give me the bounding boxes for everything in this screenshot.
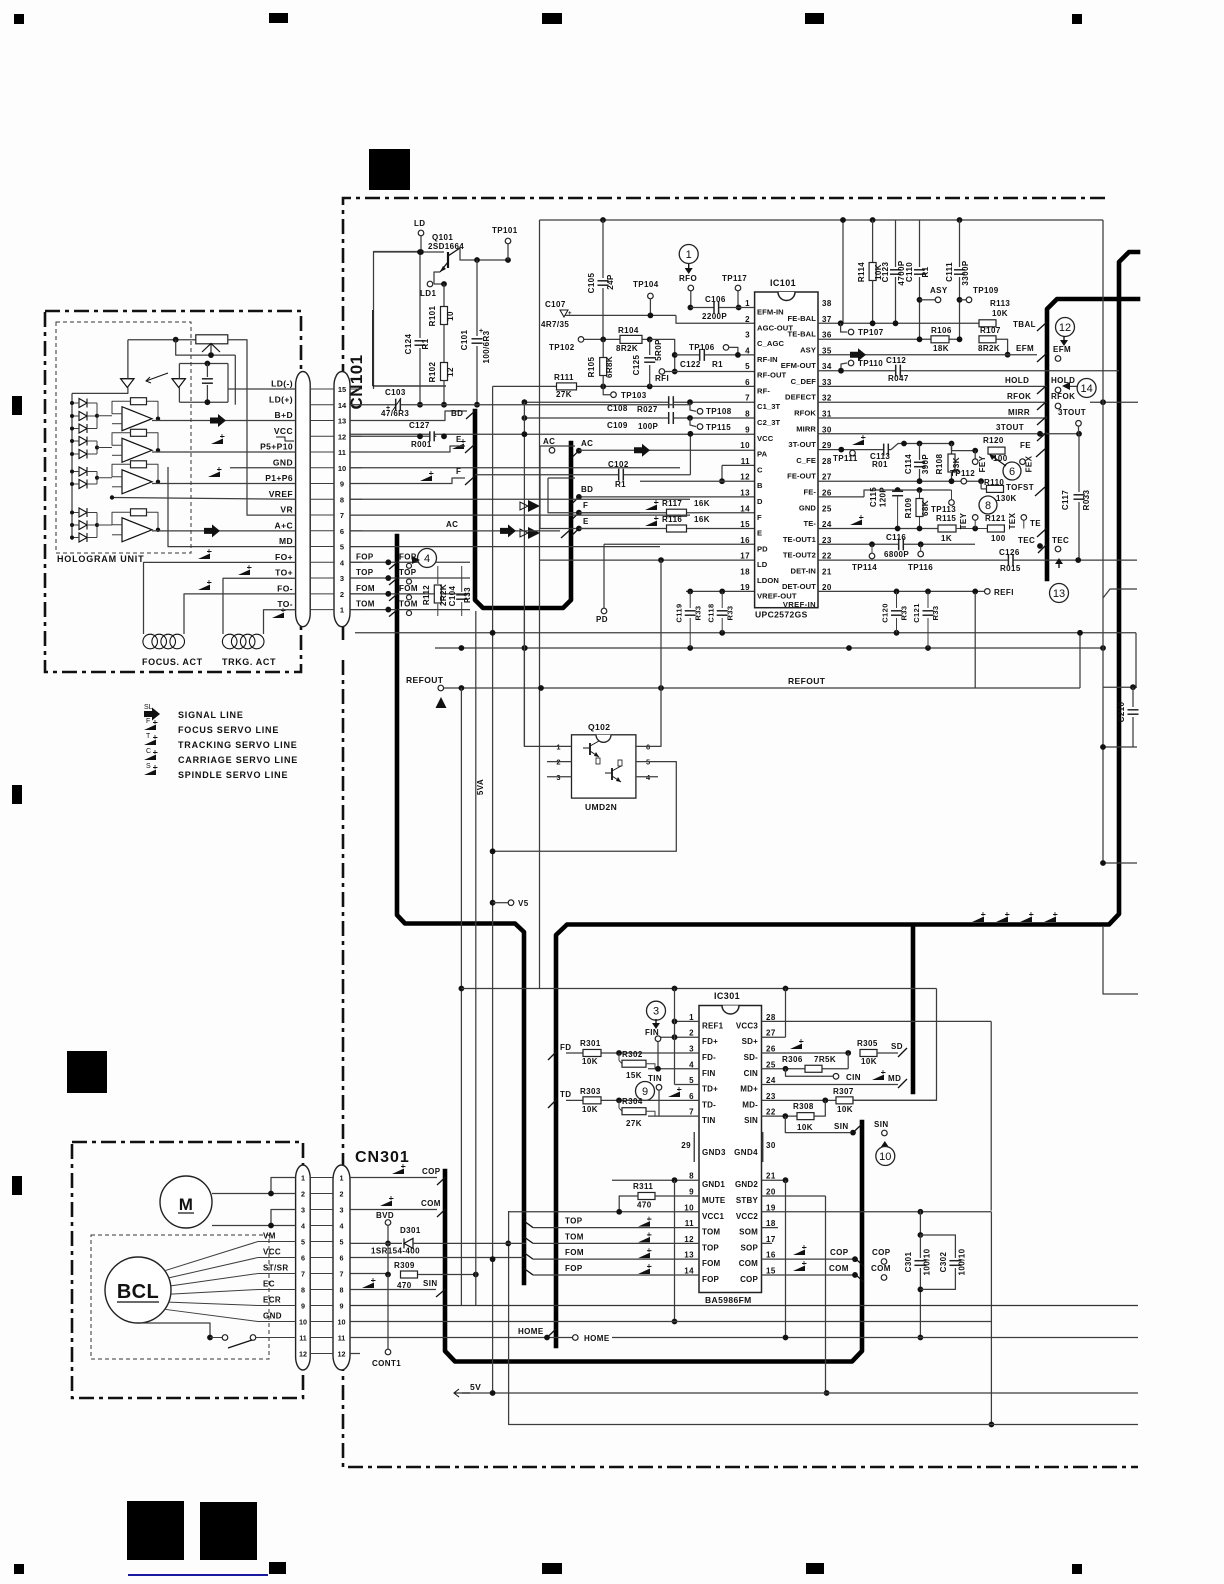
svg-text:C127: C127 xyxy=(409,421,430,430)
resistor R302 xyxy=(619,1050,655,1080)
test point FOP xyxy=(407,563,412,568)
bus slash xyxy=(524,1253,533,1260)
net label MIRR xyxy=(1008,408,1030,417)
wire xyxy=(258,1241,296,1243)
junction xyxy=(735,352,741,358)
svg-text:C107: C107 xyxy=(545,300,566,309)
junction xyxy=(655,1066,661,1072)
wire xyxy=(87,512,97,514)
pin number 8 xyxy=(340,1285,344,1294)
pin 11 number xyxy=(741,457,750,466)
svg-text:3: 3 xyxy=(340,574,344,583)
pin number 9 xyxy=(340,480,344,489)
junction xyxy=(95,476,99,480)
svg-text:9: 9 xyxy=(745,425,750,434)
wire VREF-OUT row xyxy=(686,590,755,592)
wire pin 8 xyxy=(310,1289,333,1291)
wire E bend2 xyxy=(540,446,640,529)
wire xyxy=(1102,220,1104,863)
junction xyxy=(957,217,963,223)
wire xyxy=(493,762,677,852)
svg-text:SPINDLE SERVO LINE: SPINDLE SERVO LINE xyxy=(178,770,288,780)
svg-text:R106: R106 xyxy=(931,326,952,335)
signal arrow xyxy=(850,348,866,361)
svg-text:C125: C125 xyxy=(632,354,641,375)
net label TOM xyxy=(356,600,375,609)
svg-text:14: 14 xyxy=(684,1266,694,1275)
svg-text:P1+P6: P1+P6 xyxy=(265,473,293,483)
pin 4 label xyxy=(757,355,778,364)
net label HOME xyxy=(584,1334,610,1343)
resistor R116 xyxy=(662,515,710,532)
junction xyxy=(1037,543,1043,549)
net label VREF xyxy=(269,489,293,499)
pin 2 number xyxy=(689,1029,694,1038)
svg-text:3TOUT: 3TOUT xyxy=(1058,408,1086,417)
svg-text:TOP: TOP xyxy=(702,1243,719,1252)
pin 1 label xyxy=(702,1021,724,1030)
svg-text:UMD2N: UMD2N xyxy=(585,802,617,812)
wire VCC-C127 row xyxy=(350,435,436,437)
pin 6 label xyxy=(757,386,770,395)
svg-text:FIN: FIN xyxy=(702,1069,716,1078)
wire xyxy=(87,428,97,430)
svg-text:10: 10 xyxy=(684,1203,694,1212)
svg-text:21: 21 xyxy=(822,567,832,576)
bus wire BD/E/F U-bus xyxy=(475,411,571,608)
servo flag P1+P6 xyxy=(208,467,222,477)
wire FOP row xyxy=(533,1274,699,1276)
capacitor C115 xyxy=(869,487,903,529)
svg-text:31: 31 xyxy=(822,410,832,419)
svg-text:HOLD: HOLD xyxy=(1051,376,1075,385)
pin 21 label xyxy=(791,566,817,575)
wire TIN row xyxy=(648,1115,699,1117)
resistor R105 xyxy=(587,339,614,386)
label FOCUS. ACT xyxy=(142,657,203,667)
wire pin 15 xyxy=(310,388,334,390)
photo diode segment xyxy=(79,437,87,446)
pin number 3 xyxy=(340,1205,344,1214)
wire pin 1 xyxy=(350,609,362,611)
svg-text:11: 11 xyxy=(299,1333,307,1342)
net label LD(+) xyxy=(269,394,293,404)
svg-text:R102: R102 xyxy=(428,361,437,382)
svg-text:7: 7 xyxy=(301,1269,305,1278)
wire feedback xyxy=(147,464,159,482)
svg-text:C112: C112 xyxy=(886,356,906,365)
pin 3 xyxy=(556,773,561,782)
resistor R311 xyxy=(633,1182,655,1210)
wire B row xyxy=(640,480,755,482)
svg-text:68K: 68K xyxy=(921,500,930,516)
wire LD row xyxy=(540,559,755,561)
signal arrow xyxy=(634,444,650,457)
wire xyxy=(178,388,180,403)
capacitor C111 xyxy=(945,220,970,339)
net label HOME xyxy=(518,1327,544,1336)
signal arrow BD xyxy=(520,500,540,512)
wire jog xyxy=(864,490,952,497)
wire pin 3 xyxy=(310,1209,333,1211)
resistor R107 xyxy=(978,326,1001,353)
net label FOP xyxy=(399,552,417,561)
wire pin 7 xyxy=(310,1273,333,1275)
pin number 7 xyxy=(301,1269,305,1278)
pin 36 label xyxy=(788,330,817,339)
wire CONT1 xyxy=(387,1275,389,1350)
capacitor C101 xyxy=(460,260,491,405)
capacitor C126 xyxy=(999,548,1021,573)
wire xyxy=(72,512,79,514)
svg-text:8: 8 xyxy=(985,500,991,512)
junction xyxy=(918,541,924,547)
svg-text:15K: 15K xyxy=(626,1071,642,1080)
capacitor C102 xyxy=(608,460,629,489)
resistor R108 xyxy=(935,444,961,482)
wire xyxy=(97,477,112,479)
wire pin 7 xyxy=(350,514,362,516)
legend signal arrow xyxy=(144,704,160,721)
svg-text:C: C xyxy=(146,748,151,755)
wire TE-OUT2 row xyxy=(818,559,1137,561)
svg-text:P5+P10: P5+P10 xyxy=(260,442,293,452)
connector CN101 left pill xyxy=(296,372,311,627)
svg-text:4: 4 xyxy=(340,1221,344,1230)
wire fan xyxy=(165,1309,258,1321)
svg-text:TE: TE xyxy=(1030,519,1041,528)
wire xyxy=(721,465,723,481)
pin 5 label xyxy=(702,1085,718,1094)
test point RFOK xyxy=(1055,403,1061,409)
wire C1_3T row xyxy=(524,401,754,403)
junction xyxy=(1130,684,1136,690)
wire pin 8 xyxy=(310,498,334,500)
svg-text:C119: C119 xyxy=(675,603,684,622)
wire pin 8 xyxy=(350,498,362,500)
pin 3 label xyxy=(757,339,784,348)
net label F xyxy=(583,501,588,510)
pin 12 label xyxy=(702,1243,719,1252)
junction xyxy=(949,478,955,484)
pin 33 number xyxy=(822,378,832,387)
pin 7 label xyxy=(757,402,781,411)
wire xyxy=(852,989,936,1101)
svg-text:C110: C110 xyxy=(905,262,914,282)
signal arrow xyxy=(500,524,516,537)
wire FOM xyxy=(350,593,470,595)
bus slash xyxy=(561,529,571,538)
legend text xyxy=(178,725,279,735)
wire xyxy=(636,560,661,746)
junction xyxy=(672,1034,678,1040)
svg-text:TIN: TIN xyxy=(702,1116,716,1125)
wire SIN row xyxy=(350,1289,436,1291)
svg-text:12: 12 xyxy=(338,1349,346,1358)
net label BD xyxy=(451,409,463,418)
junction xyxy=(894,630,900,636)
svg-text:R301: R301 xyxy=(580,1039,601,1048)
pin 20 label xyxy=(736,1196,759,1205)
wire xyxy=(413,1242,526,1244)
svg-text:18: 18 xyxy=(766,1219,776,1228)
switch contact xyxy=(222,1335,228,1341)
wire pin 11 xyxy=(310,451,334,453)
wire xyxy=(97,415,112,417)
wire pin12 stub xyxy=(350,1353,360,1355)
svg-text:1: 1 xyxy=(689,1013,694,1022)
wire xyxy=(1103,746,1137,748)
motor BCL xyxy=(105,1257,171,1323)
junction xyxy=(852,1272,858,1278)
test point TP112 xyxy=(950,469,975,484)
wire feedback xyxy=(112,512,131,525)
label 130K xyxy=(996,494,1017,503)
wire xyxy=(374,252,421,390)
net label TOFST xyxy=(1006,483,1034,492)
capacitor C121 + R33 xyxy=(912,591,940,648)
junction xyxy=(1005,352,1011,358)
wire MD- row xyxy=(762,1099,837,1101)
svg-text:TE-OUT2: TE-OUT2 xyxy=(783,551,816,560)
wire F to IC xyxy=(579,512,755,514)
net label LD(-) xyxy=(271,379,293,389)
svg-text:TE-OUT1: TE-OUT1 xyxy=(783,535,817,544)
wire RF-OUT row xyxy=(665,371,755,373)
junction xyxy=(918,1335,924,1341)
svg-text:25: 25 xyxy=(766,1060,776,1069)
wire GND2 row xyxy=(762,1179,786,1181)
net label RFOK xyxy=(1007,392,1031,401)
wire xyxy=(674,989,676,1085)
label HOLOGRAM UNIT xyxy=(57,554,144,564)
junction xyxy=(544,1335,550,1341)
net label RFOK xyxy=(1051,392,1075,401)
svg-text:TOM: TOM xyxy=(702,1228,720,1237)
pin 10 label xyxy=(702,1212,724,1221)
test point TEX xyxy=(1008,512,1027,529)
wire MIRR row xyxy=(818,433,1079,435)
arrowhead xyxy=(1062,382,1070,390)
svg-text:FO-: FO- xyxy=(277,583,293,593)
junction xyxy=(672,369,678,375)
wire xyxy=(97,524,112,526)
wire collector xyxy=(460,248,508,260)
wire B+D row xyxy=(350,411,467,421)
svg-text:12: 12 xyxy=(684,1235,694,1244)
test point HOLD xyxy=(1055,387,1061,393)
junction xyxy=(70,414,74,418)
pin 17 label xyxy=(741,1243,759,1252)
wire GND row xyxy=(350,467,680,469)
capacitor C118 + R33 xyxy=(707,591,735,632)
bus slash xyxy=(898,1079,907,1088)
junction xyxy=(70,439,74,443)
pin 26 label xyxy=(744,1053,759,1062)
junction xyxy=(917,487,923,493)
test point TP116 xyxy=(908,544,933,572)
net label TBAL xyxy=(1013,320,1036,329)
photo diode segment xyxy=(79,533,87,542)
svg-text:TOP: TOP xyxy=(399,568,417,577)
svg-text:8: 8 xyxy=(340,495,344,504)
wire xyxy=(234,355,236,405)
wire pin 10 xyxy=(310,467,334,469)
svg-text:8: 8 xyxy=(340,1285,344,1294)
junction xyxy=(1100,860,1106,866)
wire xyxy=(96,403,98,429)
svg-text:MD: MD xyxy=(279,536,293,546)
bus slash xyxy=(572,529,579,536)
svg-text:SIN: SIN xyxy=(834,1122,849,1131)
capacitor C105 xyxy=(587,220,615,340)
svg-text:TBAL: TBAL xyxy=(1013,320,1036,329)
pin 15 label xyxy=(740,1275,758,1284)
wire FE-OUT row xyxy=(818,480,981,482)
resistor R102 xyxy=(428,324,455,382)
svg-text:R33: R33 xyxy=(900,606,909,621)
wire COM row xyxy=(762,1258,854,1260)
wire SD- row xyxy=(762,1052,849,1054)
svg-text:R033: R033 xyxy=(1082,489,1091,510)
wire FOM row xyxy=(533,1258,699,1260)
svg-text:12: 12 xyxy=(1059,322,1071,334)
test point FEY xyxy=(972,459,978,465)
svg-text:RF-IN: RF-IN xyxy=(757,355,778,364)
svg-text:6: 6 xyxy=(745,378,750,387)
svg-text:6800P: 6800P xyxy=(884,550,909,559)
net label TOP xyxy=(565,1217,583,1226)
svg-text:TP104: TP104 xyxy=(633,280,659,289)
wire D row xyxy=(579,496,755,498)
svg-text:38: 38 xyxy=(822,299,832,308)
bus slash xyxy=(1037,432,1047,441)
svg-text:6R8K: 6R8K xyxy=(605,356,614,378)
svg-text:TD+: TD+ xyxy=(702,1085,718,1094)
pin 28 label xyxy=(796,456,816,465)
svg-text:FD: FD xyxy=(560,1043,571,1052)
arrow xyxy=(1060,336,1068,346)
svg-text:C106: C106 xyxy=(705,295,726,304)
svg-text:4R7/35: 4R7/35 xyxy=(541,320,569,329)
svg-text:7: 7 xyxy=(340,511,344,520)
svg-text:FEY: FEY xyxy=(978,455,987,472)
junction xyxy=(385,575,391,581)
capacitor C107 xyxy=(541,300,572,329)
svg-text:TP110: TP110 xyxy=(858,359,883,368)
servo line marker xyxy=(972,912,986,922)
wire xyxy=(603,544,605,611)
svg-text:2: 2 xyxy=(301,1189,305,1198)
wire SOP stub xyxy=(762,1242,773,1244)
test point RFO xyxy=(679,274,697,291)
svg-text:TOM: TOM xyxy=(565,1232,584,1241)
svg-text:C123: C123 xyxy=(881,261,890,282)
svg-text:C115: C115 xyxy=(869,487,878,507)
bus slash xyxy=(1037,401,1047,410)
pin number 10 xyxy=(338,464,346,473)
junction xyxy=(647,337,653,343)
svg-text:TP108: TP108 xyxy=(706,407,732,416)
wire FEY xyxy=(974,451,976,459)
servo line marker xyxy=(1044,912,1058,922)
wire xyxy=(847,1053,849,1069)
svg-text:TP107: TP107 xyxy=(858,328,884,337)
svg-text:6: 6 xyxy=(340,527,344,536)
junction xyxy=(901,441,907,447)
svg-text:PA: PA xyxy=(757,450,768,459)
label 2SD1664 xyxy=(428,242,464,251)
test point CONT1 xyxy=(372,1349,401,1368)
svg-text:2: 2 xyxy=(745,315,750,324)
servo flag xyxy=(392,1164,406,1174)
wire pin 15 xyxy=(350,388,362,390)
svg-text:TEC: TEC xyxy=(1052,536,1069,545)
junction xyxy=(156,480,160,484)
legend flag T xyxy=(144,733,158,745)
pin 2 xyxy=(556,758,561,767)
wire xyxy=(852,1099,936,1101)
svg-text:130K: 130K xyxy=(996,494,1017,503)
pin 34 number xyxy=(822,362,832,371)
svg-text:14: 14 xyxy=(740,504,750,513)
junction xyxy=(925,645,931,651)
svg-text:R101: R101 xyxy=(428,305,437,326)
svg-text:7: 7 xyxy=(745,394,750,403)
pin 12 label xyxy=(757,481,763,490)
svg-text:2200P: 2200P xyxy=(702,312,727,321)
svg-text:TRACKING SERVO LINE: TRACKING SERVO LINE xyxy=(178,740,298,750)
test point TEY xyxy=(959,512,978,529)
svg-text:EFM-OUT: EFM-OUT xyxy=(781,361,817,370)
wire rail xyxy=(435,647,1103,649)
svg-text:V5: V5 xyxy=(518,899,529,908)
IC IC101 part no xyxy=(755,610,808,620)
wire xyxy=(785,1180,787,1337)
svg-text:VCC2: VCC2 xyxy=(736,1212,758,1221)
pin 5 number xyxy=(689,1076,694,1085)
svg-text:470: 470 xyxy=(397,1281,412,1290)
pin 23 label xyxy=(783,535,817,544)
resistor R309 xyxy=(394,1261,418,1290)
wire TE-OUT1 row xyxy=(818,543,975,545)
svg-text:FOM: FOM xyxy=(565,1248,584,1257)
legend text xyxy=(178,710,244,720)
svg-text:+: + xyxy=(568,311,572,317)
junction xyxy=(490,1390,496,1396)
resistor R117 xyxy=(662,499,710,516)
resistor R106 xyxy=(931,326,952,353)
pin number 9 xyxy=(340,1301,344,1310)
wire opamp3 out P1+P6 xyxy=(152,483,296,485)
wire D301 row xyxy=(350,1242,402,1244)
junction xyxy=(600,337,606,343)
svg-text:8R2K: 8R2K xyxy=(978,344,1000,353)
svg-text:4: 4 xyxy=(424,553,430,565)
svg-text:C101: C101 xyxy=(460,329,469,350)
junction xyxy=(672,1019,678,1025)
svg-text:R110: R110 xyxy=(984,478,1004,487)
wire xyxy=(509,1211,699,1213)
polarity mark xyxy=(479,328,484,335)
wire FO+ xyxy=(144,562,296,634)
svg-text:9: 9 xyxy=(340,1301,344,1310)
resistor R110 xyxy=(981,478,1004,492)
wire xyxy=(974,593,976,688)
pin 29 label xyxy=(788,440,816,449)
net label COM xyxy=(829,1264,849,1273)
svg-text:10: 10 xyxy=(740,441,750,450)
